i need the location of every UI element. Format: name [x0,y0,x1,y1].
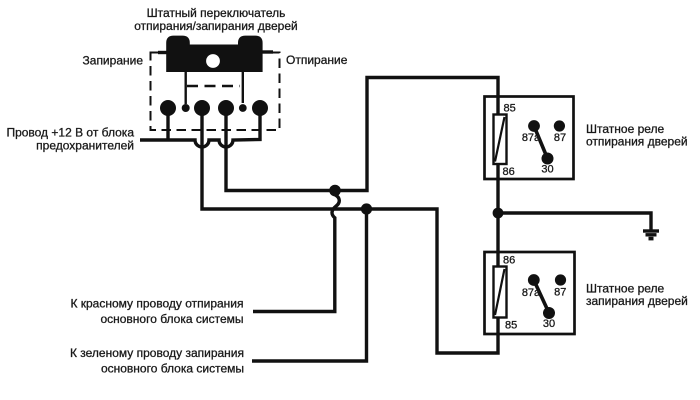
relay K1 contact 87 [554,120,565,131]
relay K1 contact 30 [542,153,554,165]
relay K2 coil [494,267,507,318]
terminal 2 [194,100,210,116]
svg-text:86: 86 [503,166,515,178]
svg-text:Провод +12 В от блока: Провод +12 В от блока [6,126,134,140]
svg-text:30: 30 [541,163,553,175]
wire terminal 2 to lock net (wire B) [202,112,498,353]
svg-text:Штатный переключатель: Штатный переключатель [147,6,286,20]
svg-text:запирания дверей: запирания дверей [586,294,688,308]
wire red branch with crossover hop [253,191,339,312]
terminal 1 stem wire [166,112,169,142]
svg-text:К зеленому проводу запирания: К зеленому проводу запирания [70,346,244,360]
svg-text:основного блока системы: основного блока системы [100,312,243,326]
relay K1 contact 87a [528,120,540,132]
svg-text:отпирания дверей: отпирания дверей [586,135,688,149]
svg-text:85: 85 [504,103,516,115]
junction dot A [329,185,341,197]
ground symbol [643,231,659,239]
switch S1 rocker body [166,36,262,72]
svg-text:отпирания/запирания дверей: отпирания/запирания дверей [134,19,297,33]
svg-text:К красному проводу отпирания: К красному проводу отпирания [70,297,243,311]
wire +12V feed with hops to terminal 4 [140,112,260,147]
switch title label [134,6,297,33]
svg-text:87: 87 [554,132,566,144]
switch S1 inner dashed link [187,85,240,88]
relay K2 contact 87a [528,274,540,286]
svg-text:87: 87 [554,287,566,299]
terminal 4 [252,100,268,116]
ground wire from relay coils [498,163,651,268]
relay K1 box [485,97,574,180]
relay K1 coil [494,115,507,165]
relay K2 contact 87 [555,274,566,285]
svg-text:предохранителей: предохранителей [36,139,134,153]
svg-text:основного блока системы: основного блока системы [101,362,244,376]
switch S1 right contact leg [242,72,244,103]
label red unlock wire [70,297,243,327]
svg-text:85: 85 [505,320,517,332]
svg-text:87а: 87а [522,132,541,144]
svg-text:30: 30 [543,318,555,330]
svg-text:87а: 87а [522,287,541,299]
terminal 3 [218,100,234,116]
relay K1 movable contact arm [534,126,548,159]
relay K1 description [586,122,688,149]
switch S1 left stub wire [158,51,167,54]
relay K2 description [586,282,688,308]
svg-text:86: 86 [503,255,515,267]
junction dot B [361,203,372,214]
junction dot ground [493,208,504,219]
label +12V feed [6,126,134,153]
switch S1 right stub wire [262,50,273,53]
relay K2 movable contact arm [534,280,549,313]
wire terminal 3 to unlock net (wire A) [226,78,498,191]
relay K2 contact 30 [543,307,555,319]
svg-text:Отпирание: Отпирание [286,53,348,67]
relay K2 box [485,252,575,334]
switch S1 dashed boundary [151,53,280,131]
wire green branch [252,209,367,361]
label green lock wire [70,346,244,376]
terminal 1 [160,100,176,116]
svg-text:Запирание: Запирание [83,54,144,68]
switch S1 left contact leg [184,72,186,104]
